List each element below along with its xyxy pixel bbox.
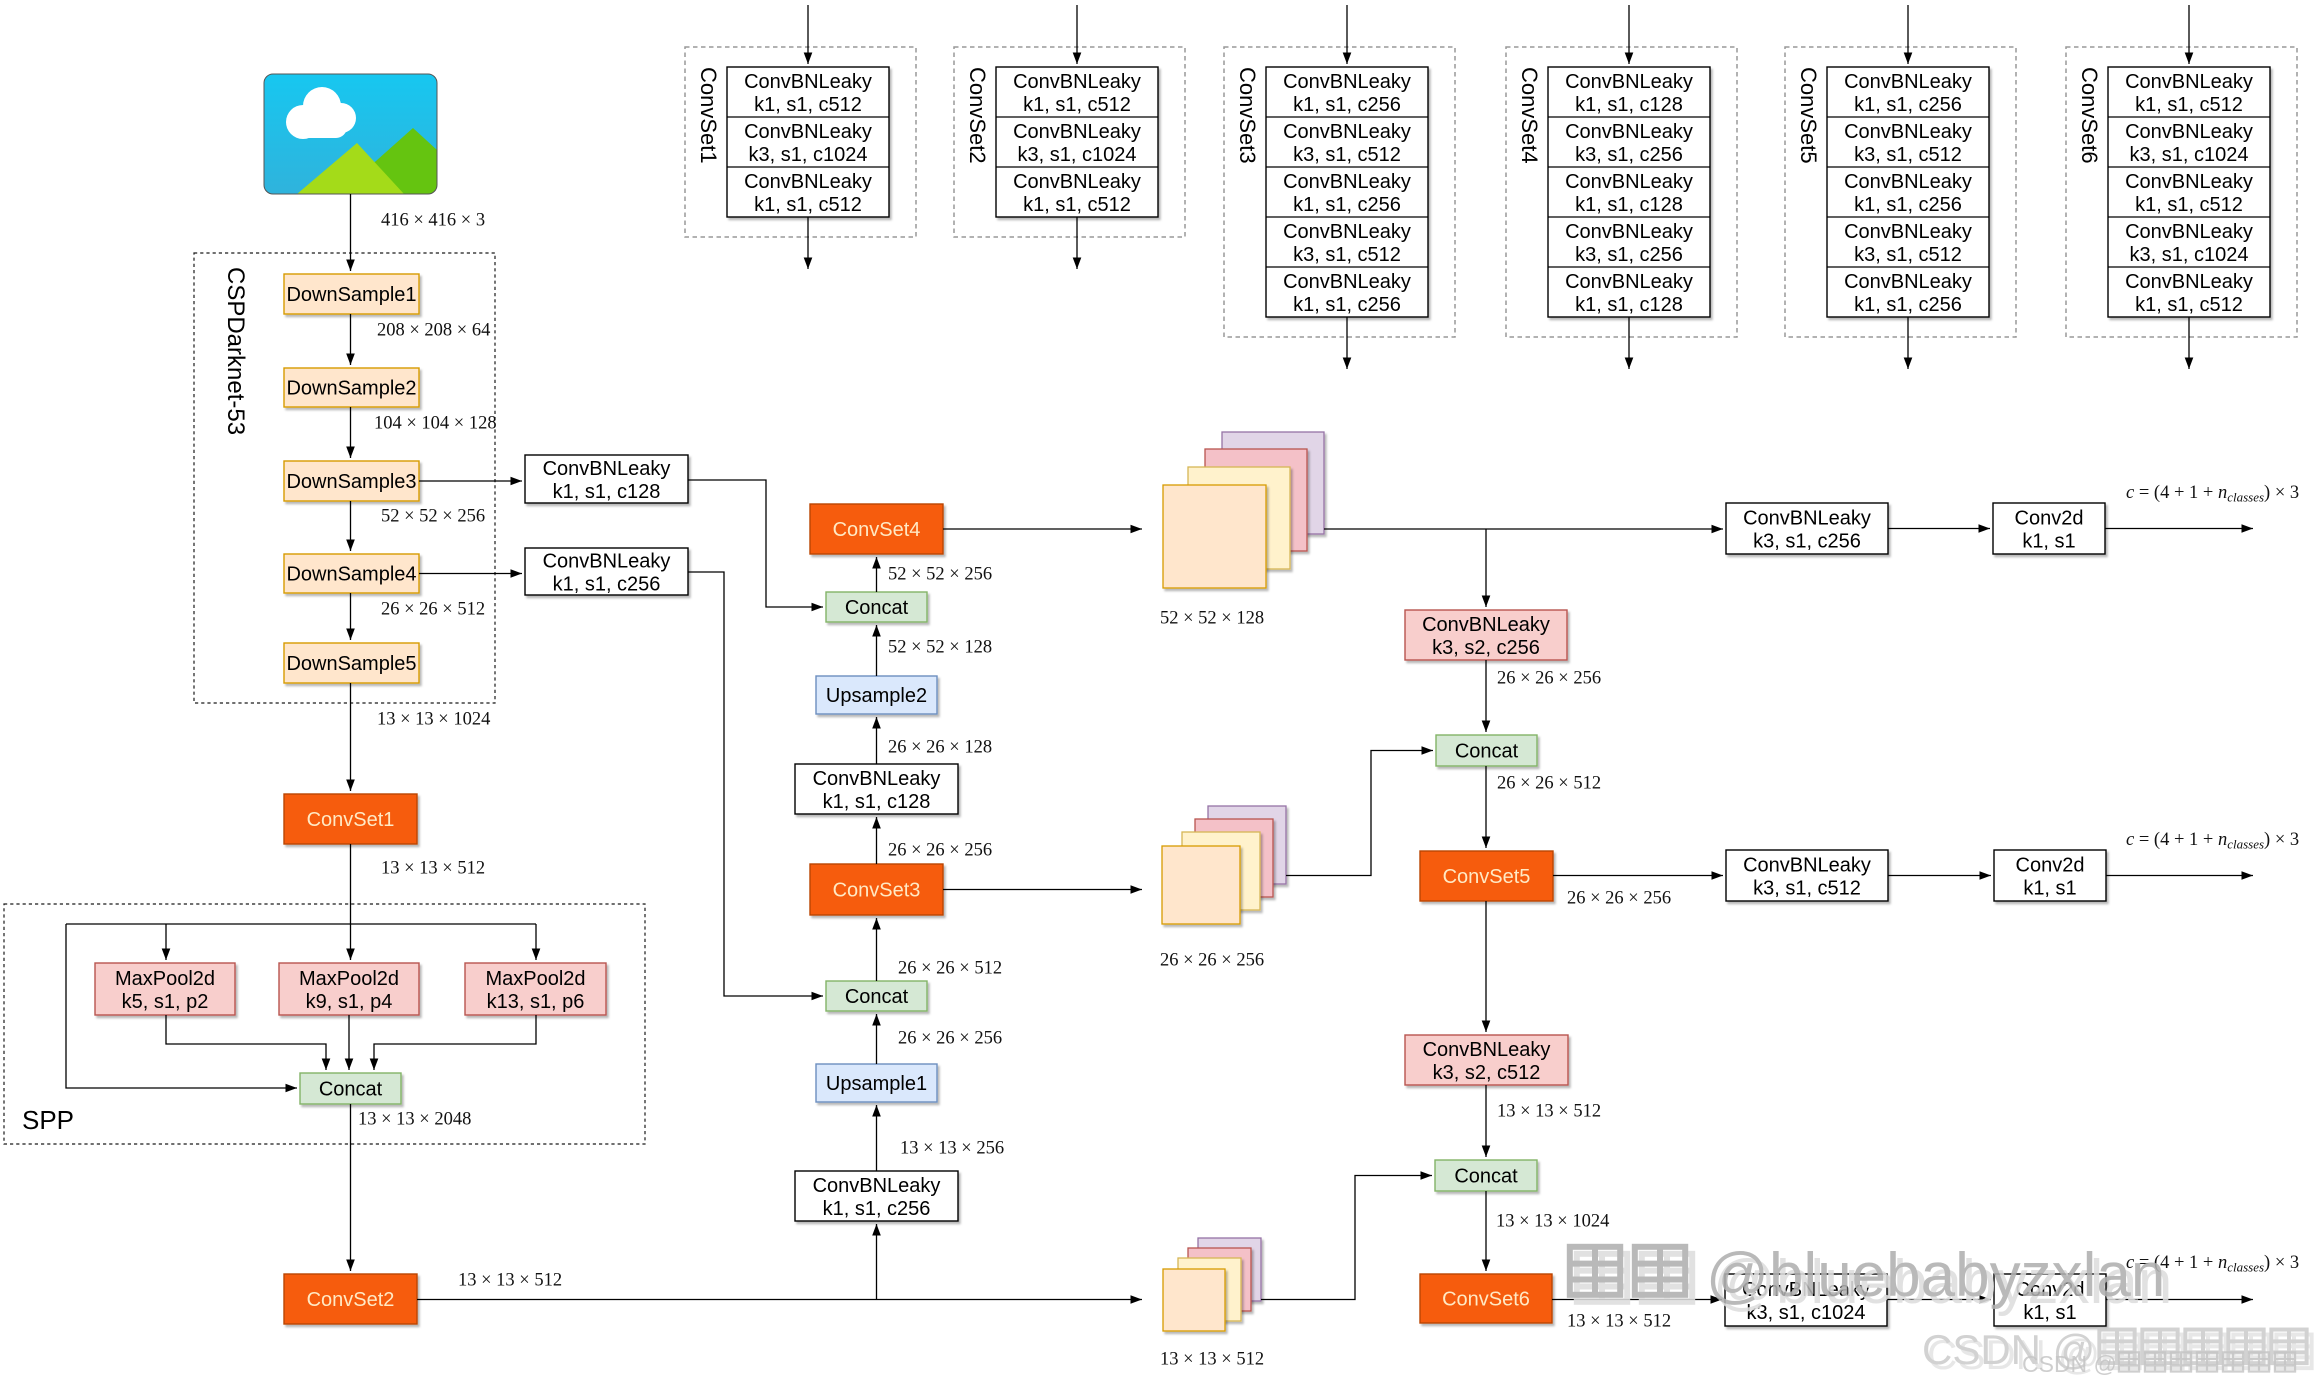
svg-text:ConvBNLeaky: ConvBNLeaky (813, 768, 941, 790)
SPP dashed container (4, 904, 645, 1144)
wire ConvSet3 to ConvBNLeaky c128 (876, 817, 878, 864)
svg-text:208 × 208 × 64: 208 × 208 × 64 (377, 321, 490, 341)
svg-text:Conv2d: Conv2d (2015, 508, 2084, 530)
wire k3s2c512 to Concat r2 (1485, 1085, 1487, 1157)
wire Concat r2 to ConvSet6 (1485, 1191, 1487, 1271)
svg-text:ConvSet4: ConvSet4 (833, 519, 921, 541)
wire ConvSet3 to feature map 26x26 (943, 889, 1142, 891)
block ConvBNLeaky k1s1c128 tap (525, 455, 688, 503)
svg-text:ConvSet1: ConvSet1 (307, 809, 395, 831)
watermark CSDN yongliangmingyueye (1922, 1326, 2312, 1376)
svg-text:ConvBNLeaky: ConvBNLeaky (1283, 271, 1411, 293)
wire Conv2d head2 out (2106, 875, 2253, 877)
svg-text:13 × 13 × 1024: 13 × 13 × 1024 (1496, 1212, 1609, 1232)
wire Upsample1 to lower Concat (876, 1014, 878, 1064)
svg-text:k1, s1, c256: k1, s1, c256 (1854, 294, 1962, 316)
block ConvBNLeaky k3s1c256 head (1726, 503, 1888, 554)
svg-text:Concat: Concat (845, 986, 909, 1008)
watermark CSDN taiyanghua (2022, 1351, 2295, 1376)
wire ConvSet6 to head3 (1552, 1299, 1722, 1301)
svg-text:k1, s1, c256: k1, s1, c256 (823, 1198, 931, 1220)
svg-text:26 × 26 × 256: 26 × 26 × 256 (1497, 669, 1601, 689)
block ConvSet5 (1420, 851, 1553, 901)
svg-text:ConvBNLeaky: ConvBNLeaky (1844, 121, 1972, 143)
svg-text:ConvBNLeaky: ConvBNLeaky (543, 458, 671, 480)
svg-text:ConvBNLeaky: ConvBNLeaky (1565, 121, 1693, 143)
wire upper Concat to ConvSet4 (876, 557, 878, 592)
wire split to MaxPool k9 (350, 924, 352, 960)
svg-text:ConvBNLeaky: ConvBNLeaky (543, 551, 671, 573)
wire ConvSet4 to feature map 52x52 (943, 528, 1142, 530)
wire lower Concat to ConvSet3 (876, 918, 878, 981)
svg-text:ConvSet2: ConvSet2 (307, 1289, 395, 1311)
svg-text:ConvBNLeaky: ConvBNLeaky (2125, 171, 2253, 193)
svg-text:k1, s1, c256: k1, s1, c256 (1854, 194, 1962, 216)
definition box ConvSet4 (1506, 47, 1737, 337)
svg-text:ConvBNLeaky: ConvBNLeaky (744, 171, 872, 193)
wire into ConvSet4 (1628, 5, 1630, 64)
block ConvBNLeaky k3s2c256 (1405, 610, 1567, 660)
svg-text:26 × 26 × 128: 26 × 26 × 128 (888, 738, 992, 758)
block DownSample1 (284, 274, 419, 314)
wire head3 to Conv2d (1887, 1299, 1991, 1301)
svg-text:ConvBNLeaky: ConvBNLeaky (1844, 71, 1972, 93)
svg-text:k9, s1, p4: k9, s1, p4 (306, 991, 393, 1013)
svg-text:ConvBNLeaky: ConvBNLeaky (1013, 171, 1141, 193)
block Upsample1 (816, 1064, 937, 1102)
svg-text:52 × 52 × 256: 52 × 52 × 256 (381, 507, 485, 527)
svg-text:k1, s1: k1, s1 (2023, 878, 2076, 900)
svg-text:DownSample4: DownSample4 (286, 564, 416, 586)
wire MaxPool k9 to Concat (348, 1015, 350, 1070)
svg-text:104 × 104 × 128: 104 × 104 × 128 (374, 414, 497, 434)
wire SPP Concat to ConvSet2 (350, 1104, 352, 1271)
svg-text:@bluebabyzxlan: @bluebabyzxlan (1706, 1241, 2165, 1310)
feature map stack 13x13x512 (1163, 1238, 1261, 1331)
svg-text:13 × 13 × 2048: 13 × 13 × 2048 (358, 1110, 471, 1130)
svg-text:ConvBNLeaky: ConvBNLeaky (1565, 221, 1693, 243)
block ConvBNLeaky k3s2c512 (1405, 1035, 1568, 1085)
block ConvBNLeaky k3s1c1024 head (1725, 1274, 1887, 1326)
svg-text:k1, s1, c128: k1, s1, c128 (553, 481, 661, 503)
svg-text:26 × 26 × 512: 26 × 26 × 512 (381, 600, 485, 620)
svg-text:k3, s1, c256: k3, s1, c256 (1575, 244, 1683, 266)
svg-text:Concat: Concat (845, 597, 909, 619)
svg-text:26 × 26 × 256: 26 × 26 × 256 (1567, 889, 1671, 909)
block ConvBNLeaky k1s1c256 bottom (795, 1171, 958, 1221)
wire into ConvSet2 (1076, 5, 1078, 64)
svg-text:k1, s1, c512: k1, s1, c512 (1023, 194, 1131, 216)
wire DownSample3 to DownSample4 (350, 501, 352, 551)
svg-text:ConvBNLeaky: ConvBNLeaky (1283, 221, 1411, 243)
wire Concat r1 to ConvSet5 (1485, 766, 1487, 848)
svg-text:Upsample2: Upsample2 (826, 685, 927, 707)
wire DownSample3 to tap c128 (419, 480, 522, 482)
wire head1 to Conv2d (1888, 528, 1990, 530)
svg-text:ConvBNLeaky: ConvBNLeaky (1565, 71, 1693, 93)
wire into ConvSet6 (2188, 5, 2190, 64)
svg-text:k1, s1, c256: k1, s1, c256 (553, 574, 661, 596)
block ConvBNLeaky k3s1c512 head (1726, 850, 1888, 901)
wire DownSample5 to ConvSet1 (350, 683, 352, 791)
definition box ConvSet3 (1224, 47, 1455, 337)
wire ConvBNLeaky c256 to Upsample1 (876, 1105, 878, 1171)
svg-text:k3, s2, c512: k3, s2, c512 (1433, 1062, 1541, 1084)
block DownSample2 (284, 368, 419, 407)
svg-text:ConvSet6: ConvSet6 (2077, 67, 2102, 164)
svg-text:k3, s1, c1024: k3, s1, c1024 (2130, 244, 2249, 266)
svg-text:k1, s1, c512: k1, s1, c512 (2135, 194, 2243, 216)
svg-text:13 × 13 × 512: 13 × 13 × 512 (1160, 1350, 1264, 1370)
input image icon (264, 74, 437, 194)
svg-text:k13, s1, p6: k13, s1, p6 (487, 991, 585, 1013)
wire split to MaxPool k5 (165, 924, 167, 960)
wire Upsample2 to upper Concat (876, 625, 878, 676)
svg-text:ConvBNLeaky: ConvBNLeaky (1565, 171, 1693, 193)
block Concat right1 (1436, 735, 1537, 766)
svg-text:k3, s1, c512: k3, s1, c512 (1753, 878, 1861, 900)
svg-text:DownSample2: DownSample2 (286, 378, 416, 400)
svg-text:SPP: SPP (22, 1105, 74, 1135)
wire stack 52x52 to head1 (1324, 528, 1723, 530)
feature map stack 52x52x128 (1163, 432, 1324, 588)
svg-text:26 × 26 × 256: 26 × 26 × 256 (898, 1029, 1002, 1049)
svg-text:13 × 13 × 512: 13 × 13 × 512 (381, 859, 485, 879)
svg-text:k3, s2, c256: k3, s2, c256 (1432, 637, 1540, 659)
wire ConvSet2 to feature map 13x13 (417, 1299, 1142, 1301)
svg-text:k1, s1: k1, s1 (2022, 531, 2075, 553)
block DownSample3 (284, 461, 419, 501)
svg-text:ConvSet5: ConvSet5 (1796, 67, 1821, 164)
svg-text:ConvBNLeaky: ConvBNLeaky (1844, 271, 1972, 293)
svg-text:ConvSet3: ConvSet3 (833, 880, 921, 902)
svg-text:ConvBNLeaky: ConvBNLeaky (1844, 171, 1972, 193)
svg-text:k1, s1, c256: k1, s1, c256 (1854, 94, 1962, 116)
svg-text:ConvBNLeaky: ConvBNLeaky (1844, 221, 1972, 243)
wire DownSample4 to DownSample5 (350, 593, 352, 640)
svg-text:52 × 52 × 128: 52 × 52 × 128 (888, 638, 992, 658)
svg-text:k3, s1, c1024: k3, s1, c1024 (1018, 144, 1137, 166)
wire DownSample4 to tap c256 (419, 573, 522, 575)
svg-text:ConvBNLeaky: ConvBNLeaky (1422, 614, 1550, 636)
block ConvSet6 (1420, 1274, 1552, 1323)
svg-text:26 × 26 × 256: 26 × 26 × 256 (888, 841, 992, 861)
block ConvBNLeaky k1s1c256 tap (525, 548, 688, 596)
wire out of ConvSet4 (1628, 317, 1630, 369)
svg-text:Concat: Concat (1455, 741, 1519, 763)
wire ConvSet5 down to k3s2c512 (1485, 901, 1487, 1032)
block Conv2d head2 (1994, 850, 2106, 901)
svg-text:k3, s1, c1024: k3, s1, c1024 (749, 144, 868, 166)
svg-text:13 × 13 × 512: 13 × 13 × 512 (1497, 1102, 1601, 1122)
svg-text:Upsample1: Upsample1 (826, 1073, 927, 1095)
wire SPP bypass to Concat (66, 924, 297, 1088)
svg-text:ConvBNLeaky: ConvBNLeaky (813, 1175, 941, 1197)
svg-text:k1, s1, c256: k1, s1, c256 (1293, 94, 1401, 116)
svg-text:CSPDarknet-53: CSPDarknet-53 (222, 267, 249, 435)
block Concat right2 (1435, 1160, 1537, 1191)
definition box ConvSet1 (685, 47, 916, 237)
wire MaxPool k5 to Concat (166, 1015, 326, 1070)
svg-text:c = (4 + 1 + nclasses) × 3: c = (4 + 1 + nclasses) × 3 (2126, 830, 2299, 852)
wire out of ConvSet1 (807, 217, 809, 269)
svg-text:13 × 13 × 256: 13 × 13 × 256 (900, 1139, 1004, 1159)
svg-text:k1, s1, c512: k1, s1, c512 (754, 94, 862, 116)
CSPDarknet-53 dashed container (194, 253, 495, 703)
svg-text:ConvBNLeaky: ConvBNLeaky (744, 121, 872, 143)
wire ConvSet1 down to SPP split (350, 844, 352, 924)
svg-text:CSDN @: CSDN @ (2022, 1351, 2117, 1376)
block ConvBNLeaky k1s1c128 mid (795, 764, 958, 814)
block ConvSet2 (284, 1274, 417, 1324)
svg-text:DownSample1: DownSample1 (286, 284, 416, 306)
svg-text:ConvBNLeaky: ConvBNLeaky (1283, 171, 1411, 193)
wire DownSample1 to DownSample2 (350, 314, 352, 365)
svg-text:Concat: Concat (1454, 1166, 1518, 1188)
svg-text:ConvBNLeaky: ConvBNLeaky (2125, 271, 2253, 293)
wire ConvSet5 to head2 (1553, 875, 1723, 877)
block SPP Concat (300, 1073, 401, 1104)
svg-text:ConvBNLeaky: ConvBNLeaky (1743, 855, 1871, 877)
svg-text:ConvBNLeaky: ConvBNLeaky (1423, 1039, 1551, 1061)
wire into ConvSet5 (1907, 5, 1909, 64)
svg-text:416 × 416 × 3: 416 × 416 × 3 (381, 211, 485, 231)
svg-text:k3, s1, c512: k3, s1, c512 (1293, 144, 1401, 166)
wire out of ConvSet5 (1907, 317, 1909, 369)
wire k3s2c256 to Concat r1 (1485, 660, 1487, 732)
svg-text:k1, s1, c256: k1, s1, c256 (1293, 294, 1401, 316)
svg-text:ConvSet3: ConvSet3 (1235, 67, 1260, 164)
svg-text:ConvBNLeaky: ConvBNLeaky (2125, 121, 2253, 143)
block MaxPool2d k13 (465, 963, 606, 1015)
feature map stack 26x26x256 (1162, 806, 1286, 924)
svg-text:k3, s1, c256: k3, s1, c256 (1575, 144, 1683, 166)
svg-text:k1, s1, c256: k1, s1, c256 (1293, 194, 1401, 216)
svg-text:c = (4 + 1 + nclasses) × 3: c = (4 + 1 + nclasses) × 3 (2126, 483, 2299, 505)
svg-text:MaxPool2d: MaxPool2d (115, 968, 215, 990)
svg-text:13 × 13 × 512: 13 × 13 × 512 (1567, 1312, 1671, 1332)
wire head2 to Conv2d (1888, 875, 1991, 877)
wire split to MaxPool k13 (535, 924, 537, 960)
svg-text:13 × 13 × 1024: 13 × 13 × 1024 (377, 710, 490, 730)
svg-text:ConvBNLeaky: ConvBNLeaky (1743, 508, 1871, 530)
wire out of ConvSet6 (2188, 317, 2190, 369)
block ConvSet1 (284, 794, 417, 844)
wire out of ConvSet3 (1346, 317, 1348, 369)
svg-text:Conv2d: Conv2d (2016, 855, 2085, 877)
svg-text:k1, s1, c512: k1, s1, c512 (2135, 294, 2243, 316)
svg-text:26 × 26 × 512: 26 × 26 × 512 (1497, 774, 1601, 794)
svg-text:ConvSet5: ConvSet5 (1443, 866, 1531, 888)
svg-text:26 × 26 × 256: 26 × 26 × 256 (1160, 951, 1264, 971)
svg-text:k1, s1, c128: k1, s1, c128 (1575, 194, 1683, 216)
wire stack 26x26 to Concat r1 (1286, 751, 1433, 876)
wire DownSample2 to DownSample3 (350, 407, 352, 458)
svg-text:ConvBNLeaky: ConvBNLeaky (1283, 121, 1411, 143)
block Upsample2 (816, 676, 937, 714)
svg-text:DownSample3: DownSample3 (286, 471, 416, 493)
wire tap c128 to upper Concat (688, 480, 823, 607)
block Conv2d head1 (1993, 503, 2105, 554)
svg-text:k1, s1, c512: k1, s1, c512 (2135, 94, 2243, 116)
wire MaxPool k13 to Concat (374, 1015, 536, 1070)
wire out of ConvSet2 (1076, 217, 1078, 269)
svg-text:13 × 13 × 512: 13 × 13 × 512 (458, 1271, 562, 1291)
svg-text:ConvSet4: ConvSet4 (1517, 67, 1542, 164)
svg-text:MaxPool2d: MaxPool2d (485, 968, 585, 990)
svg-text:ConvBNLeaky: ConvBNLeaky (1013, 121, 1141, 143)
wire stack 13x13 to Concat r2 (1261, 1176, 1432, 1300)
svg-text:k1, s1, c128: k1, s1, c128 (1575, 94, 1683, 116)
block lower Concat (826, 981, 927, 1011)
wire tap c256 to lower Concat (688, 572, 823, 996)
svg-text:ConvSet2: ConvSet2 (965, 67, 990, 164)
svg-text:ConvBNLeaky: ConvBNLeaky (1013, 71, 1141, 93)
block MaxPool2d k5 (95, 963, 235, 1015)
svg-text:ConvBNLeaky: ConvBNLeaky (2125, 71, 2253, 93)
svg-text:26 × 26 × 512: 26 × 26 × 512 (898, 959, 1002, 979)
watermark zhihu bluebabyzxlan (1570, 1241, 2173, 1317)
wire into ConvSet1 (807, 5, 809, 64)
svg-text:k3, s1, c512: k3, s1, c512 (1854, 144, 1962, 166)
svg-text:ConvBNLeaky: ConvBNLeaky (1283, 71, 1411, 93)
definition box ConvSet5 (1785, 47, 2016, 337)
wire branch down to ConvBNLeaky k3s2c256 (1485, 529, 1487, 607)
definition box ConvSet2 (954, 47, 1185, 237)
svg-text:k3, s1, c1024: k3, s1, c1024 (2130, 144, 2249, 166)
svg-text:k1, s1, c128: k1, s1, c128 (823, 791, 931, 813)
wire Conv2d head1 out (2105, 528, 2253, 530)
svg-text:ConvBNLeaky: ConvBNLeaky (2125, 221, 2253, 243)
svg-text:52 × 52 × 256: 52 × 52 × 256 (888, 565, 992, 585)
wire tee up to ConvBNLeaky c256 (876, 1224, 878, 1300)
svg-text:k3, s1, c512: k3, s1, c512 (1293, 244, 1401, 266)
svg-text:k1, s1, c512: k1, s1, c512 (754, 194, 862, 216)
block ConvSet3 (810, 864, 943, 915)
svg-text:DownSample5: DownSample5 (286, 653, 416, 675)
svg-text:k1, s1, c128: k1, s1, c128 (1575, 294, 1683, 316)
svg-text:k1, s1, c512: k1, s1, c512 (1023, 94, 1131, 116)
wire Conv2d head3 out (2106, 1299, 2253, 1301)
block DownSample5 (284, 643, 419, 683)
svg-text:ConvSet6: ConvSet6 (1442, 1289, 1530, 1311)
wire image to DownSample1 (350, 194, 352, 271)
svg-text:k5, s1, p2: k5, s1, p2 (122, 991, 209, 1013)
block ConvSet4 (810, 504, 943, 554)
svg-text:ConvBNLeaky: ConvBNLeaky (1565, 271, 1693, 293)
block Conv2d head3 (1994, 1274, 2106, 1326)
svg-text:ConvBNLeaky: ConvBNLeaky (744, 71, 872, 93)
block MaxPool2d k9 (279, 963, 419, 1015)
block DownSample4 (284, 554, 419, 593)
block upper Concat (826, 592, 927, 622)
svg-text:52 × 52 × 128: 52 × 52 × 128 (1160, 609, 1264, 629)
svg-text:MaxPool2d: MaxPool2d (299, 968, 399, 990)
svg-text:ConvSet1: ConvSet1 (696, 67, 721, 164)
svg-text:k3, s1, c256: k3, s1, c256 (1753, 531, 1861, 553)
wire SPP distribution bar (66, 923, 536, 925)
wire into ConvSet3 (1346, 5, 1348, 64)
svg-text:Concat: Concat (319, 1079, 383, 1101)
wire ConvBNLeaky c128 to Upsample2 (876, 717, 878, 764)
svg-text:k3, s1, c512: k3, s1, c512 (1854, 244, 1962, 266)
definition box ConvSet6 (2066, 47, 2297, 337)
